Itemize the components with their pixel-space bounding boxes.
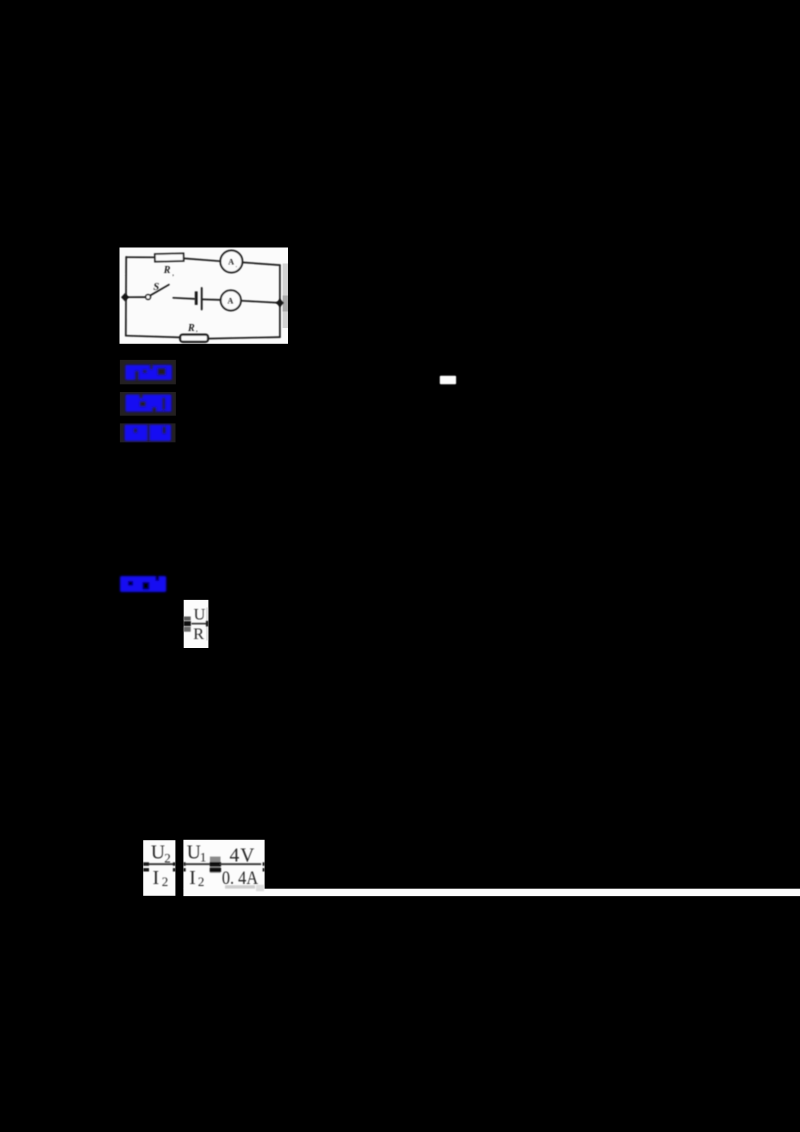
battery short thick plate <box>195 291 198 305</box>
fraction bar <box>145 863 175 865</box>
ammeter A1 <box>220 251 242 273</box>
junction node left <box>121 293 129 301</box>
wire battery to A <box>203 298 221 301</box>
svg-text:,: , <box>195 327 198 333</box>
svg-text:,: , <box>172 272 175 278</box>
highlight box 1 <box>120 360 176 384</box>
wire right vertical <box>279 265 281 337</box>
svg-text:2: 2 <box>162 874 169 889</box>
switch lever S <box>150 285 169 296</box>
svg-text:U: U <box>187 843 201 864</box>
wire switch to battery <box>173 298 194 299</box>
fraction bar 1 <box>184 863 210 865</box>
wire junction to switch <box>125 296 146 298</box>
formula image U2/I2 <box>143 840 175 896</box>
svg-text:U: U <box>194 606 206 624</box>
gray smudge under 0.4A <box>225 885 255 888</box>
wire R1 to A1 <box>184 258 221 261</box>
ammeter A <box>221 290 241 310</box>
svg-text:2: 2 <box>198 874 205 889</box>
svg-text:R: R <box>187 323 195 334</box>
svg-text:1: 1 <box>200 850 207 865</box>
circuit figure image background <box>120 248 289 344</box>
resistor R2 <box>180 335 208 342</box>
blue label zhuanti <box>126 395 172 412</box>
equals remnant right edge <box>206 621 208 627</box>
svg-text:2: 2 <box>164 850 171 865</box>
white dash image <box>440 376 456 385</box>
svg-text:S: S <box>153 282 159 293</box>
formula image =U/R <box>184 600 209 648</box>
white strip line <box>183 889 800 896</box>
svg-text:4V: 4V <box>230 845 256 866</box>
equals sign blob <box>210 857 221 873</box>
equals remnant left edge <box>183 862 185 866</box>
scan artifact gray strip right edge <box>283 264 288 329</box>
formula image U1/I2 = 4V/0.4A <box>183 840 800 896</box>
battery long plate <box>201 288 203 309</box>
blue label kaodian <box>125 365 172 380</box>
wire bottom left <box>126 336 180 338</box>
wire A1 to top-right corner <box>243 262 280 265</box>
highlight box 3 <box>120 423 176 442</box>
fraction bar 2 <box>220 863 261 865</box>
scan artifact darker gray <box>283 296 288 312</box>
svg-text:.: . <box>236 263 237 268</box>
blue label jieda <box>120 576 166 592</box>
svg-text:R: R <box>193 625 204 643</box>
wire top-left to R1 <box>126 256 155 258</box>
resistor R1 <box>155 253 184 261</box>
equals remnant left edge <box>143 862 149 866</box>
svg-text:U: U <box>151 843 165 864</box>
equals sign left <box>184 617 191 621</box>
switch pivot <box>146 295 151 300</box>
junction node right <box>276 299 284 307</box>
svg-text:A: A <box>228 257 234 266</box>
wire A to right junction <box>241 301 280 303</box>
svg-text:I: I <box>189 868 196 889</box>
equals remnant right edge <box>173 862 176 866</box>
highlight box 2 <box>120 392 176 416</box>
equals remnant right edge <box>263 862 265 866</box>
svg-text:I: I <box>153 868 160 889</box>
blue label fenxi <box>125 425 171 441</box>
fraction bar <box>192 623 207 625</box>
wire bottom right <box>208 337 280 339</box>
svg-text:R: R <box>163 265 171 276</box>
wire left vertical <box>125 257 127 336</box>
svg-text:A: A <box>228 297 234 306</box>
